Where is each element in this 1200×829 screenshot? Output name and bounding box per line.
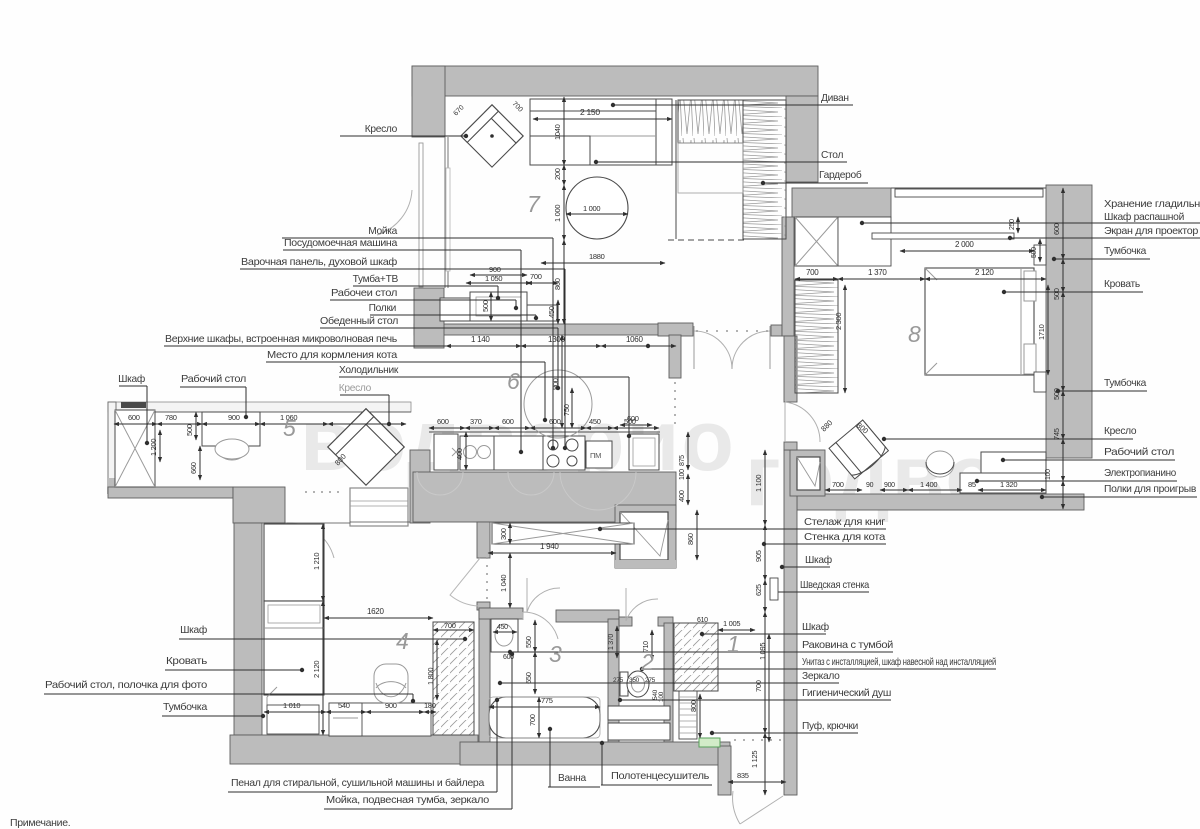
svg-text:Кровать: Кровать bbox=[1104, 279, 1140, 290]
entrance door arc bbox=[733, 791, 783, 824]
dim vert 2120b bbox=[322, 601, 324, 735]
svg-text:860: 860 bbox=[553, 278, 562, 290]
svg-text:660: 660 bbox=[189, 462, 198, 474]
bookcase (стелаж) with X bbox=[492, 523, 634, 544]
svg-text:Ванна: Ванна bbox=[558, 773, 587, 784]
svg-text:180: 180 bbox=[424, 701, 436, 710]
svg-text:2 300: 2 300 bbox=[834, 313, 843, 330]
dim 700 tv bbox=[527, 282, 558, 284]
svg-text:1 940: 1 940 bbox=[540, 542, 559, 551]
svg-text:Варочная панель, духовой шкаф: Варочная панель, духовой шкаф bbox=[241, 256, 397, 268]
kitchen mid cabinet bbox=[494, 436, 543, 470]
svg-text:500: 500 bbox=[185, 424, 194, 436]
svg-text:ПМ: ПМ bbox=[590, 451, 601, 460]
room8 shelf top bbox=[895, 189, 1043, 197]
bench room1 bbox=[679, 691, 697, 739]
wall hall doors right bbox=[771, 325, 782, 336]
wall room 4 bottom bbox=[230, 735, 478, 764]
wall shaft bottom strip bbox=[615, 560, 676, 568]
dim vert 750 kitchen bbox=[571, 388, 573, 428]
svg-text:Полотенцесушитель: Полотенцесушитель bbox=[611, 771, 709, 782]
svg-text:1710: 1710 bbox=[1037, 324, 1046, 340]
svg-text:Мойка: Мойка bbox=[368, 226, 397, 237]
dim 1050 tv bbox=[466, 282, 531, 284]
closet shelf room8 bbox=[838, 217, 891, 266]
svg-text:250: 250 bbox=[1009, 219, 1016, 230]
dim kitchen 450 bbox=[586, 427, 613, 429]
svg-text:1 000: 1 000 bbox=[553, 205, 562, 222]
wall stub under room8 door bbox=[784, 442, 797, 450]
svg-text:Стенка для кота: Стенка для кота bbox=[804, 532, 886, 543]
шведская стенка bars bbox=[770, 578, 778, 600]
svg-text:Верхние шкафы, встроенная микр: Верхние шкафы, встроенная микроволновая … bbox=[165, 333, 397, 345]
desk room8 bbox=[981, 452, 1046, 473]
dim vert 800 r1 bbox=[699, 694, 701, 738]
svg-text:1 005: 1 005 bbox=[723, 619, 740, 628]
wall toilet right bbox=[664, 623, 673, 742]
svg-text:370: 370 bbox=[470, 417, 482, 426]
wall below room8 door bbox=[784, 336, 797, 402]
svg-text:905: 905 bbox=[754, 550, 763, 562]
track room7 left bbox=[446, 168, 450, 271]
svg-text:85: 85 bbox=[968, 480, 976, 489]
svg-text:450: 450 bbox=[497, 624, 508, 631]
svg-text:8: 8 bbox=[908, 321, 921, 347]
wall room 4 left bbox=[234, 523, 262, 735]
wall top-left corner bbox=[412, 66, 445, 137]
svg-text:Шкаф распашной: Шкаф распашной bbox=[1104, 211, 1184, 223]
dim vert 400c bbox=[687, 474, 689, 505]
dim vert 1210 bbox=[322, 524, 324, 601]
svg-text:3: 3 bbox=[549, 641, 562, 667]
dim vert 500b bbox=[1039, 239, 1041, 262]
wall right of room 7 bbox=[786, 96, 818, 182]
door arc room8 bbox=[785, 402, 820, 442]
dim vert 860 bbox=[563, 240, 565, 324]
dim vert 1200 r5 bbox=[159, 430, 161, 462]
svg-text:Рабочий стол: Рабочий стол bbox=[1104, 446, 1174, 458]
bath room3 bbox=[489, 697, 600, 738]
chair room5 bbox=[216, 446, 248, 460]
desk room5 bbox=[202, 412, 260, 446]
svg-text:Полки: Полки bbox=[369, 303, 396, 314]
dim vert 500 tv bbox=[490, 292, 492, 321]
svg-text:Кресло: Кресло bbox=[1104, 426, 1137, 437]
dim vert 1800 bbox=[436, 640, 438, 700]
svg-text:Шкаф: Шкаф bbox=[118, 373, 145, 385]
svg-text:780: 780 bbox=[165, 413, 177, 422]
shaft at room 8 bottom-left bbox=[790, 450, 825, 496]
svg-text:Полки для проигрыв: Полки для проигрыв bbox=[1104, 484, 1196, 495]
dim kitchen 370 bbox=[465, 427, 494, 429]
closet inner rect room7 bbox=[678, 143, 743, 193]
dim vert 1000a bbox=[563, 185, 565, 240]
svg-text:650: 650 bbox=[524, 672, 533, 684]
wall room 5 left bbox=[108, 402, 116, 490]
svg-text:900: 900 bbox=[228, 413, 240, 422]
closet X room5 bbox=[115, 410, 155, 487]
svg-text:Пенал для стиральной, сушильно: Пенал для стиральной, сушильной машины и… bbox=[231, 777, 485, 789]
dim row8 700 bbox=[795, 278, 838, 280]
wall toilet top-left bbox=[619, 617, 632, 626]
svg-text:1 010: 1 010 bbox=[283, 701, 300, 710]
dim vert 450 k bbox=[557, 300, 559, 324]
cabinet door arcs bbox=[417, 472, 636, 510]
svg-text:Тумбочка: Тумбочка bbox=[1104, 245, 1147, 257]
wardrobe room4 bbox=[264, 524, 324, 601]
dim 2150 bbox=[533, 118, 672, 120]
wall bottom of room 8 bbox=[797, 494, 1084, 510]
wall kitchen half-wall bbox=[414, 324, 690, 335]
dim 1005 bbox=[718, 629, 755, 631]
svg-text:1 800: 1 800 bbox=[426, 668, 435, 685]
svg-text:4: 4 bbox=[396, 628, 409, 654]
sofa room7 bbox=[530, 99, 672, 165]
svg-text:500: 500 bbox=[1052, 288, 1061, 300]
wall kitchen left lower bbox=[410, 450, 430, 523]
svg-text:90: 90 bbox=[866, 482, 874, 489]
svg-text:400: 400 bbox=[455, 448, 464, 460]
wall bath bottom bbox=[460, 742, 730, 765]
svg-text:100: 100 bbox=[1045, 469, 1052, 480]
svg-text:900: 900 bbox=[884, 482, 895, 489]
svg-text:1 000: 1 000 bbox=[583, 204, 600, 213]
svg-text:600: 600 bbox=[502, 417, 514, 426]
svg-text:600: 600 bbox=[437, 417, 449, 426]
wall room 5 bottom bbox=[108, 487, 233, 498]
svg-text:200: 200 bbox=[553, 168, 562, 180]
svg-text:1880: 1880 bbox=[589, 252, 605, 261]
dim kitchen 500 bbox=[613, 427, 659, 429]
svg-text:1620: 1620 bbox=[367, 607, 384, 616]
dim row8b 1320 bbox=[978, 489, 1046, 491]
wall hall doors left bbox=[658, 323, 693, 336]
door arc room4 east bbox=[450, 558, 480, 606]
svg-text:700: 700 bbox=[832, 480, 844, 489]
svg-text:Рабочий стол: Рабочий стол bbox=[181, 373, 246, 385]
wall bath top-left bbox=[479, 608, 523, 619]
chair room8 bbox=[926, 451, 954, 477]
svg-text:1 210: 1 210 bbox=[312, 553, 321, 570]
armchair room8 rotated bbox=[829, 420, 889, 480]
svg-text:Рабочеи стол: Рабочеи стол bbox=[331, 287, 397, 299]
svg-text:Тумба+ТВ: Тумба+ТВ bbox=[353, 273, 399, 285]
dim vert 860c bbox=[696, 510, 698, 560]
svg-text:Обеденный стол: Обеденный стол bbox=[320, 315, 398, 327]
svg-text:1 100: 1 100 bbox=[754, 475, 763, 492]
hall closet box bbox=[350, 488, 408, 526]
svg-text:700: 700 bbox=[528, 714, 537, 726]
wall kitchen right bbox=[669, 335, 681, 378]
kitchen hob bbox=[543, 436, 585, 470]
svg-text:Хранение гладильн: Хранение гладильн bbox=[1104, 199, 1200, 210]
tv cabinet left bbox=[440, 298, 470, 321]
svg-text:1 200: 1 200 bbox=[149, 439, 158, 456]
chair room4 bbox=[374, 664, 408, 703]
armchair room5 (rotated) bbox=[328, 409, 404, 485]
threshold dots hall bbox=[696, 330, 768, 332]
dim vert 550 bath bbox=[534, 620, 536, 652]
radiator room7 left bbox=[419, 143, 423, 287]
closet X room8 bbox=[795, 217, 838, 266]
hall threshold dots bbox=[305, 491, 339, 493]
wall top (room 7) bbox=[412, 66, 818, 96]
kitchen sliding door dots bbox=[674, 382, 676, 424]
dim 1940 bbox=[488, 552, 616, 554]
svg-text:Стол: Стол bbox=[821, 150, 843, 161]
svg-text:600: 600 bbox=[549, 417, 561, 426]
room4 top line bbox=[264, 522, 350, 524]
dim 600 shaft bbox=[620, 424, 652, 426]
svg-text:Раковина с тумбой: Раковина с тумбой bbox=[802, 639, 893, 651]
svg-text:Электропианино: Электропианино bbox=[1104, 468, 1177, 479]
wall room 5 top bbox=[108, 402, 411, 412]
dim 1000 table bbox=[566, 213, 628, 215]
door arc room4 bbox=[287, 523, 334, 558]
door arc to toilet bbox=[626, 588, 658, 621]
closet partition line room7 bbox=[675, 100, 677, 239]
svg-text:500: 500 bbox=[481, 300, 490, 312]
svg-text:Гардероб: Гардероб bbox=[819, 169, 862, 181]
svg-text:610: 610 bbox=[697, 617, 708, 624]
svg-text:1300: 1300 bbox=[548, 335, 565, 344]
wall bath left bbox=[479, 608, 490, 742]
dim vert 250 bbox=[1017, 217, 1019, 233]
wall band between wardrobe and room 8 bbox=[792, 188, 891, 217]
svg-text:Гигиенический душ: Гигиенический душ bbox=[802, 688, 891, 699]
dim 1880 bbox=[541, 262, 665, 264]
svg-text:450: 450 bbox=[547, 306, 556, 318]
wardrobe right room7 hatched bbox=[743, 100, 786, 239]
svg-text:775: 775 bbox=[541, 696, 553, 705]
svg-text:860: 860 bbox=[686, 533, 695, 545]
svg-text:2: 2 bbox=[640, 649, 654, 675]
svg-text:2 120: 2 120 bbox=[975, 268, 994, 277]
projector screen bbox=[872, 233, 1014, 239]
wall left of room8 closets bbox=[782, 217, 794, 336]
dim kitchen 600c bbox=[530, 427, 586, 429]
wall right of room 8 bbox=[1046, 185, 1092, 458]
svg-text:Шкаф: Шкаф bbox=[805, 554, 832, 566]
wall room4 right stub bbox=[477, 602, 490, 610]
svg-text:1040: 1040 bbox=[553, 124, 562, 140]
svg-text:900: 900 bbox=[385, 701, 397, 710]
svg-text:Холодильник: Холодильник bbox=[339, 365, 399, 376]
svg-text:1: 1 bbox=[727, 631, 740, 657]
svg-text:550: 550 bbox=[524, 636, 533, 648]
dim 835 bbox=[728, 781, 786, 783]
dim row kitchen 1060 bbox=[601, 345, 676, 347]
dim row room5 bbox=[114, 423, 157, 425]
bed room4 bbox=[264, 601, 324, 695]
svg-text:Унитаз с инсталляцией, шкаф на: Унитаз с инсталляцией, шкаф навесной над… bbox=[802, 656, 996, 668]
svg-text:6: 6 bbox=[507, 368, 520, 394]
dim row8b 1400 bbox=[908, 489, 962, 491]
dim vert 1040corr bbox=[509, 553, 511, 608]
svg-text:Зеркало: Зеркало bbox=[802, 671, 840, 682]
svg-text:600: 600 bbox=[1052, 223, 1061, 235]
svg-text:2 120: 2 120 bbox=[312, 661, 321, 678]
svg-text:Диван: Диван bbox=[821, 93, 849, 104]
svg-text:Кресло: Кресло bbox=[365, 124, 398, 135]
kitchen fridge bbox=[629, 434, 659, 470]
tv cabinet bbox=[470, 292, 527, 321]
dim vert 700 bath bbox=[538, 697, 540, 738]
svg-text:450: 450 bbox=[589, 417, 601, 426]
wall corner block room4 top-left bbox=[233, 487, 285, 523]
svg-text:540: 540 bbox=[338, 701, 350, 710]
dim kitchen 600a bbox=[429, 427, 465, 429]
wall bath/toilet divider bbox=[608, 619, 619, 742]
svg-text:1 125: 1 125 bbox=[750, 751, 759, 768]
svg-text:1 040: 1 040 bbox=[499, 575, 508, 592]
svg-text:1 140: 1 140 bbox=[471, 335, 490, 344]
svg-text:700: 700 bbox=[754, 680, 763, 692]
svg-text:Мойка, подвесная тумба, зеркал: Мойка, подвесная тумба, зеркало bbox=[326, 794, 490, 806]
dim row4 1010 bbox=[264, 711, 326, 713]
kitchen cabinet with x bbox=[434, 434, 458, 470]
closet room1 hatched bbox=[674, 623, 718, 691]
bath door arc bbox=[523, 612, 558, 639]
kitchen dw unit bbox=[586, 441, 612, 468]
dim 775 bath bbox=[489, 706, 600, 708]
svg-text:Стелаж для книг: Стелаж для книг bbox=[804, 517, 886, 528]
wall room4 right upper bbox=[477, 522, 490, 558]
dim vert 800 kitchen bbox=[561, 335, 563, 428]
dim vert 300corr bbox=[509, 523, 511, 544]
thin wall left room7 bbox=[444, 137, 446, 288]
svg-text:750: 750 bbox=[562, 404, 571, 416]
desk room4 bbox=[329, 703, 431, 736]
kitchen counter line bbox=[429, 431, 660, 433]
dim row4 540 bbox=[326, 711, 366, 713]
dim vert 1710 bbox=[1047, 285, 1049, 375]
svg-text:Экран для проектор: Экран для проектор bbox=[1104, 226, 1199, 237]
dim row4 900 bbox=[366, 711, 424, 713]
dim vert 1040 bbox=[563, 97, 565, 165]
svg-text:1 050: 1 050 bbox=[485, 274, 502, 283]
green mat bbox=[699, 738, 720, 747]
wall kitchen bottom band bbox=[413, 472, 676, 522]
svg-text:745: 745 bbox=[1052, 428, 1061, 440]
closet hatched room8 bbox=[795, 280, 838, 393]
svg-text:700: 700 bbox=[806, 268, 819, 277]
nightstand top room8 bbox=[1034, 245, 1046, 265]
svg-text:1 095: 1 095 bbox=[758, 643, 767, 660]
svg-text:Кресло: Кресло bbox=[339, 383, 372, 394]
dim vert 710 t bbox=[651, 630, 653, 660]
bed room8 bbox=[925, 268, 1034, 375]
entrance threshold dots bbox=[734, 739, 781, 741]
dim 2000 bbox=[900, 250, 1034, 252]
svg-text:600: 600 bbox=[128, 413, 140, 422]
dim vert 500 r5 bbox=[195, 412, 197, 440]
corridor dots bbox=[486, 557, 488, 599]
dim 700 penal bbox=[433, 629, 474, 631]
dim row8b 900 bbox=[880, 489, 908, 491]
svg-text:Посудомоечная машина: Посудомоечная машина bbox=[284, 238, 398, 249]
kitchen dining table bbox=[524, 370, 592, 438]
svg-text:Тумбочка: Тумбочка bbox=[163, 701, 208, 713]
nightstand bottom room8 bbox=[1034, 372, 1046, 392]
svg-text:Рабочий стол, полочка для фото: Рабочий стол, полочка для фото bbox=[45, 679, 208, 691]
piano room8 bbox=[960, 473, 1046, 493]
svg-text:1 370: 1 370 bbox=[868, 268, 887, 277]
dim row4 180 bbox=[424, 711, 436, 713]
tv cabinet right bbox=[527, 305, 557, 321]
svg-text:1 400: 1 400 bbox=[920, 480, 937, 489]
svg-text:875: 875 bbox=[679, 455, 686, 466]
dim vert 660 r5 bbox=[199, 446, 201, 480]
room8 top line bbox=[891, 187, 1046, 189]
svg-text:100: 100 bbox=[679, 469, 686, 480]
dim kitchen 600b bbox=[494, 427, 530, 429]
dim 1620 bbox=[324, 617, 433, 619]
svg-text:1060: 1060 bbox=[626, 335, 643, 344]
dim vert 400 kitchen bbox=[465, 432, 467, 470]
dim row8b 700 bbox=[825, 489, 862, 491]
svg-text:700: 700 bbox=[444, 621, 456, 630]
svg-text:Место для кормления кота: Место для кормления кота bbox=[267, 350, 398, 361]
shaft right of kitchen bbox=[615, 505, 676, 568]
svg-text:7: 7 bbox=[527, 191, 541, 217]
wall bath top-right step bbox=[556, 610, 619, 622]
closet top room7 hatched bbox=[678, 100, 743, 143]
svg-text:Шкаф: Шкаф bbox=[180, 624, 207, 636]
wall central vertical (hall) bbox=[784, 450, 797, 795]
dim hall vert line bbox=[764, 450, 766, 525]
dim vert 1095 bbox=[768, 634, 770, 742]
dining table room7 bbox=[566, 177, 628, 239]
svg-text:1 370: 1 370 bbox=[608, 634, 615, 650]
svg-text:625: 625 bbox=[754, 584, 763, 596]
svg-text:835: 835 bbox=[737, 771, 749, 780]
watermark bbox=[300, 393, 1054, 524]
dim 450 sink bbox=[493, 631, 517, 633]
svg-text:800: 800 bbox=[689, 700, 698, 712]
svg-text:400: 400 bbox=[677, 490, 686, 502]
svg-text:Тумбочка: Тумбочка bbox=[1104, 377, 1147, 389]
washer stack bbox=[608, 706, 670, 720]
dim row kitchen 1300 bbox=[521, 345, 601, 347]
dim row8 2120 bbox=[925, 278, 1046, 280]
dim vert 2300 bbox=[844, 285, 846, 393]
kitchen sink unit bbox=[460, 436, 494, 470]
svg-text:Пуф, крючки: Пуф, крючки bbox=[802, 720, 858, 732]
dim vert 200 bbox=[563, 165, 565, 185]
toilet room2 bbox=[620, 672, 628, 696]
dim 900 tv bbox=[470, 274, 527, 276]
dim row kitchen 1140 bbox=[446, 345, 521, 347]
sink room3 bbox=[491, 619, 518, 652]
door arc corridor mid bbox=[527, 578, 560, 612]
double door arcs bbox=[694, 331, 770, 369]
svg-text:Примечание.: Примечание. bbox=[10, 817, 70, 829]
dim row8 1370 bbox=[838, 278, 925, 280]
door arc room5-hall bbox=[377, 190, 412, 235]
wall entrance step bbox=[718, 746, 731, 795]
dim right col room8 bbox=[1062, 188, 1064, 259]
wall kitchen left upper bbox=[414, 288, 444, 348]
svg-text:Шведская стенка: Шведская стенка bbox=[800, 580, 870, 591]
svg-text:Шкаф: Шкаф bbox=[802, 621, 829, 633]
penal room4 hatched bbox=[433, 622, 474, 735]
svg-text:5: 5 bbox=[283, 415, 296, 441]
svg-text:2 000: 2 000 bbox=[955, 240, 974, 249]
dashed opening under wardrobe bbox=[668, 239, 745, 241]
svg-text:2 150: 2 150 bbox=[580, 107, 600, 117]
dim vert 1370 t bbox=[616, 626, 618, 658]
